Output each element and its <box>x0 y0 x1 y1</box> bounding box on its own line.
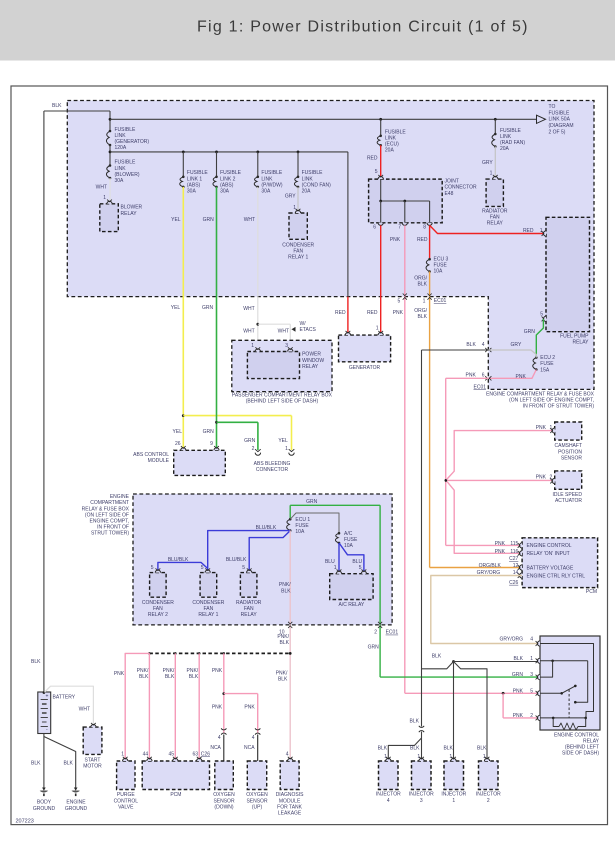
svg-text:LINK 2: LINK 2 <box>220 176 236 182</box>
svg-text:ENGINE CONTROL: ENGINE CONTROL <box>527 543 572 549</box>
wire PNK/BLK diagnosis feed <box>276 531 293 759</box>
svg-text:PNK/: PNK/ <box>137 668 149 674</box>
svg-text:ENGINE: ENGINE <box>110 494 130 500</box>
svg-text:RELAY: RELAY <box>487 221 504 227</box>
svg-text:GRN: GRN <box>203 217 215 223</box>
svg-text:FAN: FAN <box>204 606 214 612</box>
wire GRN <box>202 187 258 450</box>
injector 2 <box>476 757 501 804</box>
svg-text:8: 8 <box>423 224 426 230</box>
svg-text:WHT: WHT <box>243 329 254 335</box>
svg-text:VALVE: VALVE <box>118 804 134 810</box>
svg-text:ETACS: ETACS <box>300 327 317 333</box>
wire GRY rad fan <box>482 147 495 178</box>
svg-text:GRY: GRY <box>511 342 522 348</box>
svg-text:IDLE SPEED: IDLE SPEED <box>553 492 583 498</box>
wire GRY/ORG <box>431 570 540 643</box>
svg-text:GROUND: GROUND <box>65 806 88 812</box>
svg-text:BLK: BLK <box>278 676 288 682</box>
svg-text:FUSIBLE: FUSIBLE <box>220 170 242 176</box>
svg-text:3: 3 <box>285 343 288 349</box>
svg-text:RADIATOR: RADIATOR <box>482 208 508 214</box>
svg-text:BLK: BLK <box>63 760 73 766</box>
diagnosis module for tank leakage <box>276 751 304 816</box>
injector 3 <box>409 757 434 804</box>
svg-text:(BEHIND LEFT: (BEHIND LEFT <box>565 745 599 751</box>
svg-text:SENSOR: SENSOR <box>213 798 235 804</box>
svg-text:WHT: WHT <box>244 217 255 223</box>
svg-text:116: 116 <box>510 549 518 555</box>
svg-text:FAN: FAN <box>490 215 500 221</box>
svg-text:PASSENGER COMPARTMENT RELAY BO: PASSENGER COMPARTMENT RELAY BOX <box>232 393 333 399</box>
svg-text:RELAY: RELAY <box>241 612 258 618</box>
svg-text:WHT: WHT <box>243 306 254 312</box>
fuel pump relay <box>540 217 589 345</box>
svg-text:10A: 10A <box>344 543 354 549</box>
svg-text:PNK/: PNK/ <box>279 582 291 588</box>
engine ground <box>65 788 88 812</box>
svg-text:WHT: WHT <box>79 706 90 712</box>
svg-text:OXYGEN: OXYGEN <box>213 792 235 798</box>
wire RED to joint connector <box>367 145 381 177</box>
svg-text:(ECU): (ECU) <box>385 142 399 148</box>
wire BLK body ground <box>31 734 44 788</box>
svg-text:4: 4 <box>482 342 485 348</box>
svg-text:PCM: PCM <box>170 792 181 798</box>
wire RED generator pin 1 <box>367 225 381 333</box>
svg-text:GRN: GRN <box>202 305 214 311</box>
svg-text:2: 2 <box>530 713 533 719</box>
fusible link 2 (ABS) 30A <box>213 152 242 195</box>
svg-text:4: 4 <box>387 798 390 804</box>
svg-text:2 OF 5): 2 OF 5) <box>549 129 566 135</box>
svg-text:5: 5 <box>530 689 533 695</box>
fuse A/C 10A <box>335 531 358 549</box>
svg-text:RED: RED <box>367 155 378 161</box>
svg-text:JOINT: JOINT <box>445 179 459 185</box>
wire <box>109 145 348 166</box>
svg-text:BLK: BLK <box>466 342 476 348</box>
svg-text:LINK: LINK <box>500 134 512 140</box>
svg-text:PNK: PNK <box>516 374 527 380</box>
svg-text:NCA: NCA <box>244 745 255 751</box>
svg-text:YEL: YEL <box>278 438 288 444</box>
wire PNK sensors net <box>445 378 555 555</box>
condenser fan relay 1 (mid) <box>192 568 224 618</box>
svg-text:PNK/: PNK/ <box>277 634 289 640</box>
wire GRN ECU1 feed <box>290 499 540 678</box>
svg-text:CONNECTOR: CONNECTOR <box>256 467 289 473</box>
svg-text:30A: 30A <box>261 189 271 195</box>
svg-text:RELAY 'ON' INPUT: RELAY 'ON' INPUT <box>527 551 570 557</box>
injector 1 <box>441 757 466 804</box>
engine compartment relay & fuse box (top) <box>67 101 594 410</box>
svg-text:GRY/ORG: GRY/ORG <box>477 570 501 576</box>
svg-text:FUSIBLE: FUSIBLE <box>549 110 571 116</box>
svg-text:BLK: BLK <box>31 760 41 766</box>
body ground <box>33 788 56 812</box>
svg-text:ABS BLEEDING: ABS BLEEDING <box>254 461 291 467</box>
svg-text:4: 4 <box>218 735 221 741</box>
svg-text:BLK: BLK <box>477 746 487 752</box>
svg-text:15A: 15A <box>540 367 550 373</box>
svg-text:GRN: GRN <box>244 438 256 444</box>
svg-text:(ABS): (ABS) <box>220 182 234 188</box>
svg-text:3: 3 <box>420 798 423 804</box>
svg-text:4: 4 <box>286 751 289 757</box>
wire PNK/BLK PCM 44 <box>137 653 150 758</box>
injector 4 <box>376 757 401 804</box>
svg-text:BLK: BLK <box>139 674 149 680</box>
start motor <box>83 723 102 770</box>
svg-text:9: 9 <box>210 441 213 447</box>
svg-text:CONTROL: CONTROL <box>114 798 139 804</box>
wire WHT blower <box>96 178 110 201</box>
svg-text:(ON LEFT SIDE OF ENGINE COMPT,: (ON LEFT SIDE OF ENGINE COMPT, <box>509 397 594 403</box>
svg-text:120A: 120A <box>115 145 127 151</box>
svg-text:C26: C26 <box>201 751 210 757</box>
svg-text:6: 6 <box>482 372 485 378</box>
svg-text:RED: RED <box>367 310 378 316</box>
svg-text:2: 2 <box>252 446 255 452</box>
svg-text:1: 1 <box>490 171 493 177</box>
svg-text:5: 5 <box>201 565 204 571</box>
node C26 <box>201 751 210 757</box>
svg-text:ORG/: ORG/ <box>414 308 427 314</box>
svg-text:RED: RED <box>523 228 534 234</box>
svg-text:207223: 207223 <box>16 819 34 825</box>
svg-text:GRN: GRN <box>512 672 524 678</box>
oxygen sensor (down) <box>213 761 235 810</box>
svg-text:45: 45 <box>168 751 174 757</box>
svg-text:IN FRONT OF STRUT TOWER): IN FRONT OF STRUT TOWER) <box>523 404 595 410</box>
engine compartment relay & fuse box (middle) <box>82 494 392 625</box>
engine control relay <box>536 636 600 757</box>
svg-text:GRN: GRN <box>306 499 318 505</box>
wire BLK engine ground <box>44 737 76 788</box>
svg-text:RED: RED <box>335 310 346 316</box>
svg-text:1: 1 <box>423 299 426 305</box>
svg-text:ECU 2: ECU 2 <box>540 355 555 361</box>
svg-text:CONNECTOR: CONNECTOR <box>445 185 478 191</box>
svg-text:44: 44 <box>143 751 149 757</box>
svg-text:PNK: PNK <box>495 541 506 547</box>
node EC01 pin6 <box>474 384 487 390</box>
svg-text:1: 1 <box>530 656 533 662</box>
svg-text:PNK: PNK <box>393 310 404 316</box>
svg-text:WHT: WHT <box>96 184 107 190</box>
svg-text:FUSE: FUSE <box>434 263 448 269</box>
title <box>197 19 529 36</box>
svg-text:FAN: FAN <box>153 606 163 612</box>
wire to A/C fuse <box>290 513 339 533</box>
injector BLK labels <box>384 746 487 760</box>
svg-text:5: 5 <box>242 565 245 571</box>
svg-text:PNK: PNK <box>390 237 401 243</box>
svg-text:BLK: BLK <box>280 640 290 646</box>
svg-text:FUSE: FUSE <box>295 523 309 529</box>
svg-text:PNK: PNK <box>212 704 223 710</box>
svg-text:A/C RELAY: A/C RELAY <box>339 602 365 608</box>
svg-text:BLK: BLK <box>418 282 428 288</box>
svg-text:PNK: PNK <box>536 475 547 481</box>
svg-text:BODY: BODY <box>37 800 52 806</box>
svg-text:GENERATOR: GENERATOR <box>349 365 381 371</box>
svg-text:30A: 30A <box>220 189 230 195</box>
svg-text:PCM: PCM <box>586 589 597 595</box>
svg-text:WHT: WHT <box>278 329 289 335</box>
wire WHT power window <box>243 187 290 352</box>
svg-text:FUSIBLE: FUSIBLE <box>500 128 522 134</box>
svg-text:BLU/BLK: BLU/BLK <box>226 557 247 563</box>
svg-text:RELAY: RELAY <box>302 364 319 370</box>
svg-text:CONDENSER: CONDENSER <box>192 600 224 606</box>
svg-text:BLK: BLK <box>31 659 41 665</box>
svg-text:EC01: EC01 <box>434 298 447 304</box>
wire PNK purge control valve <box>114 653 150 758</box>
condenser fan relay 1 <box>282 209 314 261</box>
svg-text:BLK: BLK <box>281 588 291 594</box>
wire BLK battery feed <box>31 103 110 695</box>
svg-text:ENGINE CONTROL: ENGINE CONTROL <box>554 732 599 738</box>
svg-text:30A: 30A <box>115 178 125 184</box>
wire RED generator <box>335 152 348 333</box>
svg-text:INJECTOR: INJECTOR <box>476 792 501 798</box>
generator <box>339 331 391 371</box>
svg-text:CONDENSER: CONDENSER <box>282 242 314 248</box>
svg-text:YEL: YEL <box>171 305 181 311</box>
svg-text:LINK: LINK <box>115 133 127 139</box>
svg-text:PNK: PNK <box>513 689 524 695</box>
A/C relay <box>330 570 373 609</box>
battery <box>38 691 76 733</box>
PCM (bottom) <box>142 757 209 798</box>
wire RED fuel pump <box>430 225 546 234</box>
passenger compartment relay box <box>232 340 333 404</box>
svg-text:63: 63 <box>192 751 198 757</box>
wire PNK/BLK PCM 63 <box>187 653 200 758</box>
svg-text:PNK: PNK <box>212 668 223 674</box>
svg-text:SENSOR: SENSOR <box>561 455 583 461</box>
svg-text:2: 2 <box>374 630 377 636</box>
svg-text:5: 5 <box>540 312 543 318</box>
svg-text:PNK: PNK <box>495 549 506 555</box>
condenser fan relay 2 <box>142 568 174 618</box>
svg-text:BLK: BLK <box>410 746 420 752</box>
wire BLK injectors <box>378 350 540 759</box>
svg-text:COMPARTMENT: COMPARTMENT <box>90 500 129 506</box>
svg-text:FUSIBLE: FUSIBLE <box>115 127 137 133</box>
svg-text:LEAKAGE: LEAKAGE <box>278 811 302 817</box>
svg-text:DIAGNOSIS: DIAGNOSIS <box>276 792 304 798</box>
fuse ECU 1 10A <box>287 517 311 535</box>
node EC01 <box>434 298 447 304</box>
svg-text:PNK: PNK <box>536 425 547 431</box>
power window relay <box>247 343 324 379</box>
svg-text:FUSE: FUSE <box>344 537 358 543</box>
svg-text:RELAY: RELAY <box>121 211 138 217</box>
svg-text:(BEHIND LEFT SIDE OF DASH): (BEHIND LEFT SIDE OF DASH) <box>246 399 319 405</box>
fusible link 1 (ABS) 30A <box>180 152 209 195</box>
svg-text:BLK: BLK <box>165 674 175 680</box>
svg-text:ORG/: ORG/ <box>414 275 427 281</box>
svg-text:LINK: LINK <box>261 176 273 182</box>
svg-text:INJECTOR: INJECTOR <box>376 792 401 798</box>
wire GRN fuel pump <box>524 319 544 358</box>
svg-text:GRY: GRY <box>482 160 493 166</box>
svg-text:(BLOWER): (BLOWER) <box>115 172 140 178</box>
svg-text:ENGINE: ENGINE <box>66 800 86 806</box>
svg-text:SENSOR: SENSOR <box>246 798 268 804</box>
svg-text:RELAY 1: RELAY 1 <box>198 612 218 618</box>
wire YEL <box>171 187 292 450</box>
svg-text:FUSIBLE: FUSIBLE <box>261 170 283 176</box>
svg-text:5: 5 <box>151 565 154 571</box>
svg-text:(RAD FAN): (RAD FAN) <box>500 140 525 146</box>
svg-text:(COND FAN): (COND FAN) <box>302 182 332 188</box>
svg-text:3: 3 <box>530 672 533 678</box>
svg-text:BLK: BLK <box>410 719 420 725</box>
svg-text:RELAY 1: RELAY 1 <box>288 255 308 261</box>
svg-text:RADIATOR: RADIATOR <box>236 600 262 606</box>
svg-text:E48: E48 <box>445 191 454 197</box>
svg-text:1: 1 <box>251 343 254 349</box>
svg-text:LINK 1: LINK 1 <box>187 176 203 182</box>
svg-text:YEL: YEL <box>171 217 181 223</box>
svg-text:FUSIBLE: FUSIBLE <box>187 170 209 176</box>
svg-text:CONDENSER: CONDENSER <box>142 600 174 606</box>
svg-text:5: 5 <box>398 299 401 305</box>
svg-text:1: 1 <box>452 798 455 804</box>
svg-text:1: 1 <box>293 205 296 211</box>
fusible link (RAD FAN) 20A <box>492 119 526 152</box>
svg-text:LINK: LINK <box>385 136 397 142</box>
wire RED ECU3 <box>417 225 430 259</box>
svg-text:INJECTOR: INJECTOR <box>441 792 466 798</box>
svg-text:1: 1 <box>334 565 337 571</box>
svg-text:20A: 20A <box>302 189 312 195</box>
svg-text:PURGE: PURGE <box>117 792 135 798</box>
svg-text:CAMSHAFT: CAMSHAFT <box>555 443 583 449</box>
fusible link (P/WDW) 30A <box>254 152 283 195</box>
svg-text:(UP): (UP) <box>252 804 263 810</box>
svg-text:FUSE: FUSE <box>540 361 554 367</box>
svg-text:RELAY: RELAY <box>583 739 600 745</box>
svg-text:(GENERATOR): (GENERATOR) <box>115 139 150 145</box>
svg-text:2: 2 <box>487 798 490 804</box>
svg-text:PNK/: PNK/ <box>187 668 199 674</box>
svg-text:7: 7 <box>398 224 401 230</box>
svg-text:RELAY 2: RELAY 2 <box>148 612 168 618</box>
wire BLK pin 4 <box>422 342 492 352</box>
fusible link (COND FAN) 20A <box>294 152 331 195</box>
svg-text:YEL: YEL <box>173 429 183 435</box>
svg-text:5: 5 <box>375 169 378 175</box>
svg-text:NCA: NCA <box>210 745 221 751</box>
fusible link (generator) 120A <box>106 127 149 151</box>
svg-text:LINK: LINK <box>115 166 127 172</box>
svg-text:ENGINE CTRL RLY CTRL: ENGINE CTRL RLY CTRL <box>527 573 586 579</box>
svg-text:GROUND: GROUND <box>33 806 56 812</box>
svg-text:FUSIBLE: FUSIBLE <box>385 129 407 135</box>
joint connector E48 <box>369 175 477 231</box>
svg-text:ORG/BLK: ORG/BLK <box>479 563 502 569</box>
svg-text:C27: C27 <box>509 556 518 562</box>
svg-text:GRN: GRN <box>203 429 215 435</box>
svg-text:20A: 20A <box>385 148 395 154</box>
svg-text:10A: 10A <box>434 269 444 275</box>
wire GRY ECU2 <box>488 342 536 358</box>
camshaft position sensor <box>550 422 582 461</box>
svg-text:20A: 20A <box>500 146 510 152</box>
svg-text:RELAY & FUSE BOX: RELAY & FUSE BOX <box>82 506 130 512</box>
svg-text:BLK: BLK <box>514 656 524 662</box>
svg-text:START: START <box>85 757 101 763</box>
svg-text:4: 4 <box>530 636 533 642</box>
svg-text:(DOWN): (DOWN) <box>214 804 233 810</box>
svg-text:SIDE OF DASH): SIDE OF DASH) <box>562 751 599 757</box>
svg-text:RELAY: RELAY <box>572 340 589 346</box>
svg-text:BLU/BLK: BLU/BLK <box>256 525 277 531</box>
oxygen sensor (up) <box>246 761 268 810</box>
svg-text:BLK: BLK <box>418 314 428 320</box>
svg-text:INJECTOR: INJECTOR <box>409 792 434 798</box>
PCM <box>509 538 597 595</box>
svg-text:+: + <box>46 694 49 700</box>
svg-text:PNK: PNK <box>244 704 255 710</box>
svg-text:1: 1 <box>121 751 124 757</box>
arrow to fusible link 50A <box>537 104 574 135</box>
svg-text:PNK/: PNK/ <box>276 670 288 676</box>
fuse ECU 2 15A <box>533 355 556 373</box>
svg-text:BLOWER: BLOWER <box>121 205 143 211</box>
wire harness bus (dashed) <box>148 652 290 655</box>
svg-text:ENGINE COMPARTMENT RELAY & FUS: ENGINE COMPARTMENT RELAY & FUSE BOX <box>486 391 595 397</box>
svg-text:ECU 1: ECU 1 <box>295 517 310 523</box>
idle speed actuator <box>550 471 582 504</box>
svg-text:6: 6 <box>373 224 376 230</box>
svg-text:BATTERY VOLTAGE: BATTERY VOLTAGE <box>527 565 574 571</box>
svg-text:Fig 1: Power Distribution Circ: Fig 1: Power Distribution Circuit (1 of … <box>197 19 529 36</box>
svg-text:GRN: GRN <box>524 329 536 335</box>
svg-text:26: 26 <box>175 441 181 447</box>
svg-text:ABS CONTROL: ABS CONTROL <box>133 452 169 458</box>
svg-text:W/: W/ <box>300 321 307 327</box>
svg-text:MODULE: MODULE <box>148 458 170 464</box>
svg-text:OXYGEN: OXYGEN <box>246 792 268 798</box>
svg-text:14: 14 <box>513 570 519 576</box>
svg-text:C26: C26 <box>509 580 518 586</box>
svg-text:5: 5 <box>359 565 362 571</box>
svg-text:GRY: GRY <box>285 193 296 199</box>
svg-text:FUSIBLE: FUSIBLE <box>302 170 324 176</box>
fuse ECU 3 10A <box>426 256 448 274</box>
svg-text:TO: TO <box>549 104 556 110</box>
svg-text:BLK: BLK <box>52 103 62 109</box>
svg-text:WINDOW: WINDOW <box>302 358 324 364</box>
svg-text:MOTOR: MOTOR <box>83 763 102 769</box>
svg-text:(DIAGRAM: (DIAGRAM <box>549 123 574 129</box>
svg-text:ENGINE COMPT,: ENGINE COMPT, <box>90 519 129 525</box>
wire WHT start motor <box>45 686 95 726</box>
svg-text:10A: 10A <box>295 529 305 535</box>
fusible link (blower) 30A <box>106 160 139 184</box>
radiator fan relay <box>482 175 508 227</box>
svg-text:FUSIBLE: FUSIBLE <box>115 160 137 166</box>
svg-text:BLK: BLK <box>443 746 453 752</box>
svg-text:LINK 50A: LINK 50A <box>549 117 571 123</box>
svg-text:(ON LEFT SIDE OF: (ON LEFT SIDE OF <box>85 512 129 518</box>
